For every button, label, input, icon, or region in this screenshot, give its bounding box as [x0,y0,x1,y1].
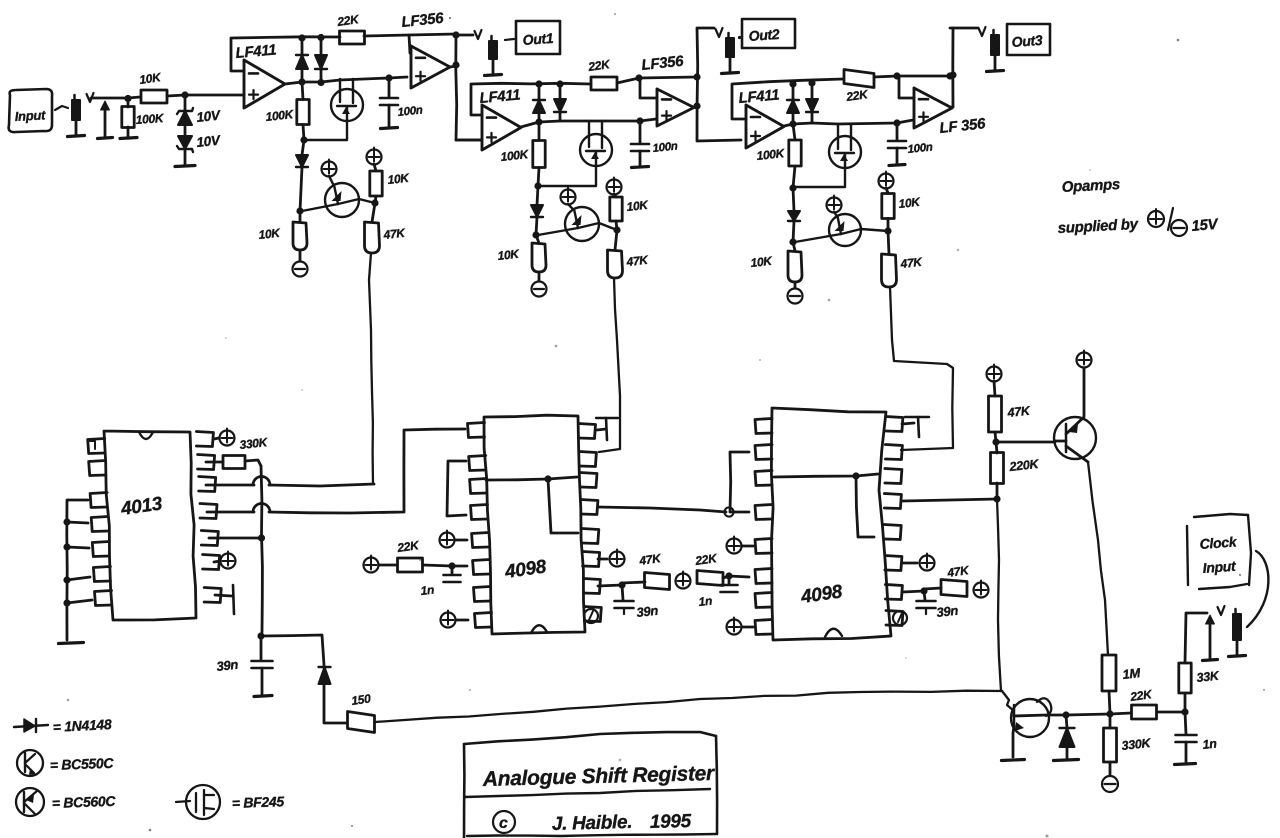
supply plus 22K 4098a [364,556,398,573]
wire 4098a pin7 junction [598,581,626,588]
svg-text:100K: 100K [135,111,165,127]
svg-text:10V: 10V [196,133,222,150]
FET BF245 stage3 [795,124,861,187]
legend diode text [52,716,112,735]
wire LF356 out stage2 [693,28,741,141]
svg-text:= 1N4148: = 1N4148 [52,716,112,735]
wire 22K to clock node [1157,708,1189,715]
out1 jack [459,30,502,76]
resistor 10K minus stage2 [497,235,546,281]
node collector stage2 [613,226,620,233]
wire 4013 pin5 to vertical [209,537,262,540]
supply plus 4098a left pin8 [441,611,469,628]
resistor 47K stage2 [608,230,650,278]
transistor BC550C bottom [1002,691,1051,757]
wire S&H stage2 [539,117,656,124]
IC 4013 left pin 1 [88,439,105,454]
node base stage3 [789,238,796,245]
svg-text:= BC550C: = BC550C [50,755,115,773]
out1 label box [505,21,560,54]
IC 4013 left pin 1 curl [90,441,95,449]
IC 4013 body [104,431,196,620]
diode pair stage1 first [296,34,308,82]
IC 4098b right pin 5 [884,525,901,540]
IC 4098a left pin 2 [469,456,486,471]
wire 22K to 4098b pin6 [723,572,749,579]
resistor 10K pullup stage3 [882,194,922,232]
capacitor 39n 4098b [917,591,960,620]
svg-text:= BF245: = BF245 [232,793,285,811]
node gate stage2 [534,182,541,189]
clock arrow symbol [1203,615,1218,661]
termination 4098b right pin1 [902,417,929,437]
FET BF245 stage2 [540,121,612,186]
resistor 47K right [989,396,1032,432]
svg-text:1M: 1M [1122,665,1142,682]
svg-text:33K: 33K [1196,669,1221,685]
svg-text:10K: 10K [258,226,282,242]
op-amp LF356 stage3 [914,88,987,137]
op-amp LF411 stage3 [732,79,843,148]
IC 4098b left pin 8 [755,620,772,635]
supply plus 10K stage2 [607,178,622,198]
svg-text:39n: 39n [636,603,659,620]
capacitor 100n stage3 [888,123,933,166]
IC 4098a right pin 3 [580,473,597,488]
node collector stage1 [371,199,378,206]
IC 4098a right pin 4 [581,500,598,515]
node collector stage3 [884,227,891,234]
op-amp LF411 stage2 [471,83,591,150]
wire 4098a pin4 to 4098b [598,507,734,517]
svg-text:10K: 10K [626,198,650,214]
svg-text:10K: 10K [898,195,922,211]
wire 4098b pin4 to right column [903,495,1001,502]
input label box [9,89,52,132]
IC 4013 left pin 4 [91,517,108,532]
svg-text:Out1: Out1 [522,30,554,48]
IC 4098a internal line [486,475,578,533]
svg-text:47K: 47K [899,255,924,271]
IC 4013 right pin 4 [200,504,217,519]
resistor 10K input [138,70,167,103]
legend BC550C text [50,755,115,773]
note opamp supply text [1057,176,1220,237]
resistor 22K right [1110,687,1157,719]
transistor BC560C right top [1054,368,1096,462]
resistor 100K hold stage3 [756,124,801,188]
supply plus 47K 4098b [974,581,989,598]
IC 4098a left pin 5 [472,533,489,548]
resistor 47K 4098b [924,563,971,597]
svg-text:10K: 10K [497,247,521,263]
supply plus transistor stage3 [827,196,842,213]
node gate stage3 [789,184,796,191]
supply plus 4098b right pin6 [903,554,935,571]
wire emitter to 1M [1088,462,1108,655]
diode 1N4148 stage3 series [788,188,800,242]
resistor 10K pullup stage2 [610,197,650,230]
resistor 22K stage2 [586,57,617,90]
legend BC550C symbol [17,750,43,776]
resistor 330K 4013 [206,456,261,469]
resistor 10K pullup stage1 [370,171,411,203]
resistor 100K hold stage2 [500,122,545,186]
legend BF245 symbol [176,785,220,819]
wire rail stage3 [874,72,950,98]
svg-text:Opamps: Opamps [1061,176,1120,196]
svg-text:= BC560C: = BC560C [52,793,117,811]
wire input to 10K [87,93,141,102]
out3 jack [950,27,1004,72]
svg-text:Out3: Out3 [1011,32,1043,50]
IC 4098b left pin 4 [755,505,772,520]
clock input box [1187,514,1251,589]
transistor BC560C stage2 [538,204,617,241]
svg-text:47K: 47K [1006,404,1032,420]
title text [482,762,717,791]
legend BC560C text [52,793,117,811]
supply plus 4013 pin6 [214,552,236,569]
supply plus 10K stage3 [879,172,894,194]
wire 10K to opamp [167,91,244,98]
resistor 10K minus stage1 [258,211,307,261]
svg-text:J. Haible.: J. Haible. [552,812,633,835]
IC 4098a left pin 4 [471,505,488,520]
supply plus 4098b left pin8 [727,618,754,635]
diode pair stage3 second [806,79,818,123]
IC 4013 left pin 6 [93,567,110,582]
svg-text:10K: 10K [750,254,774,270]
transistor BC560C stage1 [302,176,375,217]
transistor BC560C stage3 [795,212,888,246]
out3 label box [1007,24,1050,55]
supply minus 330K [1102,776,1118,792]
svg-text:1n: 1n [420,583,435,598]
svg-text:15V: 15V [1191,216,1220,235]
svg-text:LF411: LF411 [738,86,780,106]
IC 4098a right pin 6 [583,552,600,567]
node base stage2 [532,231,539,238]
diode pair stage2 second [554,80,566,121]
IC 4098a left pin 6 [473,560,490,575]
svg-text:10V: 10V [196,108,222,125]
ground 4013 bus [59,643,84,644]
svg-text:Out2: Out2 [748,26,780,44]
supply plus 4098a left pin5 [440,531,468,548]
IC 4013 left pin 3 [90,493,107,508]
resistor 22K stage1 [335,12,364,44]
wire LF356 out stage1 [450,31,481,140]
wire 4013 pin4 to 4098a pin1 [207,429,465,513]
svg-text:Clock: Clock [1199,533,1238,552]
wire bracket 4098b pins 2-4 [730,452,749,512]
svg-text:47K: 47K [625,253,650,269]
wire rail stage2 [617,74,697,98]
IC 4098a left pin 8 [475,613,492,628]
IC 4013 left pin 5 [92,542,109,557]
capacitor 1n clock [1175,712,1218,765]
supply plus 4098b left pin5 [727,537,754,554]
IC 4098b right pin 7 [885,585,902,600]
svg-text:Input: Input [1202,558,1237,576]
IC 4098b left pin 3 [755,471,772,486]
IC 4098b left pin 5 [755,539,772,554]
IC 4098b right pin 2 [885,445,902,460]
IC 4098a right pin 8 [584,607,601,622]
capacitor 1n mid [698,576,738,609]
marker 4098a pin8 [584,609,598,623]
diode pair stage2 first [533,80,545,122]
IC 4098a right pin 5 [582,529,599,544]
svg-text:47K: 47K [382,226,407,242]
wire S&H stage1 [302,74,407,82]
squiggle after input box [55,106,68,110]
IC 4098a left pin 7 [474,587,491,602]
zener 10V lower [175,125,222,167]
wire bracket 4098a pins 2-4 [447,461,466,516]
supply plus 10K stage1 [367,148,382,172]
wire 150 to transistor base [375,691,1002,722]
svg-text:39n: 39n [936,603,959,620]
IC 4098a body [484,415,585,634]
IC 4013 right pin 2 [198,455,215,470]
node base stage1 [296,207,303,214]
wire stage1 to stage2 input [456,139,481,142]
IC 4013 right pin 1 [196,432,213,447]
supply plus 47K right [987,365,1002,397]
resistor 22K 4098a [395,538,422,572]
svg-text:LF411: LF411 [479,86,521,106]
resistor 1M [1102,655,1142,691]
clock jack [1229,609,1246,657]
IC 4098b left pin 6 [755,569,772,584]
IC 4098a left pin 1 [468,423,485,438]
wire 4013 hop vertical [257,466,265,640]
svg-text:10K: 10K [387,171,411,187]
IC 4098b right pin 3 [885,469,902,484]
supply minus stage2 [532,282,547,297]
resistor 22K stage3 [844,70,874,105]
IC 4098b right pin 1 [886,417,903,432]
capacitor 39n 4098a [615,585,660,620]
diode 1N4148 right [1054,715,1079,761]
svg-text:LF411: LF411 [235,41,277,61]
wire 47K stage3 down [890,287,953,450]
legend BF245 text [232,793,285,811]
wire right column down [997,499,1001,691]
legend BC560C symbol [16,788,44,816]
input jack [68,95,85,137]
capacitor 100n stage2 [631,121,678,168]
IC 4098a right pin 2 [579,452,596,467]
wire 4098b pin7 junction [903,587,928,594]
IC 4013 left pin 7 [95,591,112,606]
wire 4013 pin3 to 47K stage1 [206,477,374,487]
resistor 47K stage3 [882,231,924,287]
wire LF411 out stage1 [285,78,306,85]
supply minus stage1 [293,262,308,277]
title copyright [493,811,692,835]
IC 4098b internal line [774,472,878,537]
supply plus 4098a right pin6 [598,550,625,567]
wire S&H stage3 [793,119,913,126]
wire 22K to 4098a pin6 [423,562,467,569]
svg-text:39n: 39n [216,657,239,674]
capacitor 1n 4098a [420,566,461,598]
svg-text:Input: Input [14,107,46,124]
resistor 220K [991,442,1041,499]
IC 4098b right pin 8 [886,611,903,626]
supply plus transistor stage2 [561,188,576,205]
out2 label box [742,19,795,48]
clock vee [1218,606,1225,615]
svg-text:1995: 1995 [650,811,692,833]
IC 4098b body [771,408,891,640]
IC 4013 right pin 6 [203,555,220,570]
wire LF411 out stage2 [521,118,543,127]
svg-text:c: c [499,815,508,832]
svg-text:150: 150 [350,691,372,708]
wire node to diode 150 [261,635,324,665]
resistor 22K mid [693,551,723,586]
resistor 330K [1104,714,1153,775]
IC 4013 right pin 3 [199,477,216,492]
diode 1N4148 clock line [319,667,348,723]
wire LF356 out stage3 [946,28,956,107]
FET BF245 stage1 [304,79,363,140]
supply minus stage3 [788,289,803,304]
IC 4098a right pin 1 [579,424,596,439]
wire rail to LF356 stage1 [364,34,456,53]
title box [464,732,717,838]
IC 4098b right pin 4 [884,494,901,509]
diode 1N4148 stage1 series [296,140,308,211]
node gate stage1 [300,136,307,143]
diode pair stage1 second [315,34,327,86]
zener 10V upper [177,95,222,125]
IC 4098a left pin 3 [470,479,487,494]
IC 4013 right pin 7 [204,588,221,603]
IC 4098b left pin 2 [755,445,772,460]
legend diode symbol [14,719,48,732]
IC 4013 left pin 2 [89,461,106,476]
IC 4013 right pin 5 [201,531,218,546]
capacitor 100n stage1 [380,78,423,129]
supply plus 4013 pin1 [214,429,269,452]
resistor 150 [348,691,375,732]
out2 jack [698,28,741,74]
wire 47K stage1 down [369,253,373,484]
op-amp LF356 stage2 [641,53,694,126]
op-amp LF356 stage1 [401,10,450,88]
IC 4098b right pin 6 [885,556,902,571]
supply plus 47K 4098a [676,572,691,589]
wire collector node [1047,711,1110,718]
marker 4098b pin8 [893,611,907,625]
resistor 100K hold stage1 [265,82,309,140]
input arrow symbol [98,101,113,139]
IC 4098b left pin 7 [755,593,772,608]
svg-text:1n: 1n [1202,737,1218,752]
resistor 47K 4098a [622,551,670,590]
IC 4098b left pin 1 [755,419,772,434]
termination 4013 pin7 [215,585,234,614]
wire 1M to node [1106,691,1113,718]
resistor 100K input [120,98,165,139]
resistor 47K stage1 [365,203,407,253]
wire LF411 out stage3 [784,120,797,127]
wire 4013 ground bus [63,500,92,640]
svg-text:1n: 1n [698,594,713,609]
diode 1N4148 stage2 series [531,186,543,235]
termination 4098a right pin1 [596,418,618,440]
node 47K 220K [992,432,1055,446]
ground transistor bottom [1002,760,1025,761]
diode pair stage3 first [787,80,799,124]
supply plus transistor stage1 [322,160,337,177]
op-amp LF411 stage1 [231,37,340,108]
resistor 10K minus stage3 [750,242,802,288]
capacitor 39n left [216,636,273,697]
clock arrow curve [1247,551,1268,627]
supply plus transistor right [1077,351,1092,368]
wire 47K stage2 down [599,278,620,452]
resistor 33K clock [1179,613,1221,712]
IC 4098a right pin 7 [583,579,600,594]
